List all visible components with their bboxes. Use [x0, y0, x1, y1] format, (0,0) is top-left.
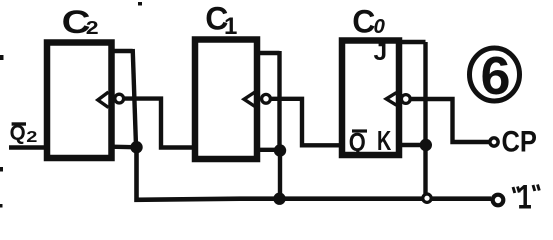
svg-text:CP: CP — [502, 125, 537, 158]
speck marks from scan — [0, 55, 4, 60]
clock triangle C0 — [386, 93, 396, 106]
wire C2 J stub (top-right) — [110, 49, 133, 53]
wire C0 clock from bubble to CP terminal — [410, 99, 490, 142]
label Q-bar (C0 output) — [349, 128, 367, 157]
wire C0 J/K tie vertical down to bus — [423, 42, 427, 195]
wire C0 J stub from top-right corner — [397, 40, 426, 45]
junction dot C2 J/K — [130, 141, 142, 153]
svg-text:J: J — [374, 39, 388, 66]
wire C2 clock from bubble to C1 Qbar output — [124, 99, 194, 148]
svg-text:2: 2 — [26, 128, 37, 146]
svg-text:K: K — [377, 126, 392, 157]
junction dot C1 J/K — [274, 144, 286, 156]
clock bubble C0 — [401, 95, 410, 104]
wire Q2-bar input to C2 — [9, 145, 46, 149]
clock bubble C2 — [115, 94, 124, 103]
terminal ring CP — [490, 138, 498, 146]
wire C0 K stub — [397, 143, 424, 147]
clock triangle C1 — [244, 92, 255, 107]
label C1 — [205, 1, 237, 41]
svg-text:1: 1 — [224, 13, 237, 40]
clock triangle C2 — [98, 92, 109, 108]
wire C1 J/K tie vertical — [277, 51, 281, 150]
label "1" — [513, 179, 539, 216]
svg-text:0: 0 — [374, 15, 386, 38]
flip-flop C2 — [47, 43, 112, 159]
wire C2 J/K tie vertical — [133, 49, 136, 146]
connection ring C0 tie on bus — [423, 194, 431, 202]
terminal ring logic 1 — [493, 195, 504, 206]
svg-text:6: 6 — [481, 46, 511, 106]
wire C1 J stub (top-right) — [256, 51, 280, 55]
figure number circled 6 — [470, 46, 520, 106]
flip-flop C1 — [195, 40, 257, 160]
wire C1 K stub — [256, 148, 278, 152]
svg-text:Q: Q — [349, 128, 366, 157]
clock bubble C1 — [262, 94, 271, 103]
junction dot C0 J/K — [420, 139, 432, 151]
wire logic-1 bus — [137, 146, 492, 200]
label C2 — [62, 4, 99, 40]
svg-text:1: 1 — [518, 179, 532, 216]
svg-text:C: C — [352, 4, 375, 40]
label Q2-bar — [10, 121, 38, 145]
wire C1 clock from bubble to C0 Qbar output — [271, 99, 341, 146]
junction dot C1 tie on bus — [273, 193, 285, 205]
svg-text:2: 2 — [86, 18, 99, 38]
label C0 — [352, 4, 385, 40]
flip-flop C0 — [342, 41, 399, 156]
wire C2 K stub — [110, 144, 134, 149]
wire C1 tie down to bus — [278, 151, 282, 199]
